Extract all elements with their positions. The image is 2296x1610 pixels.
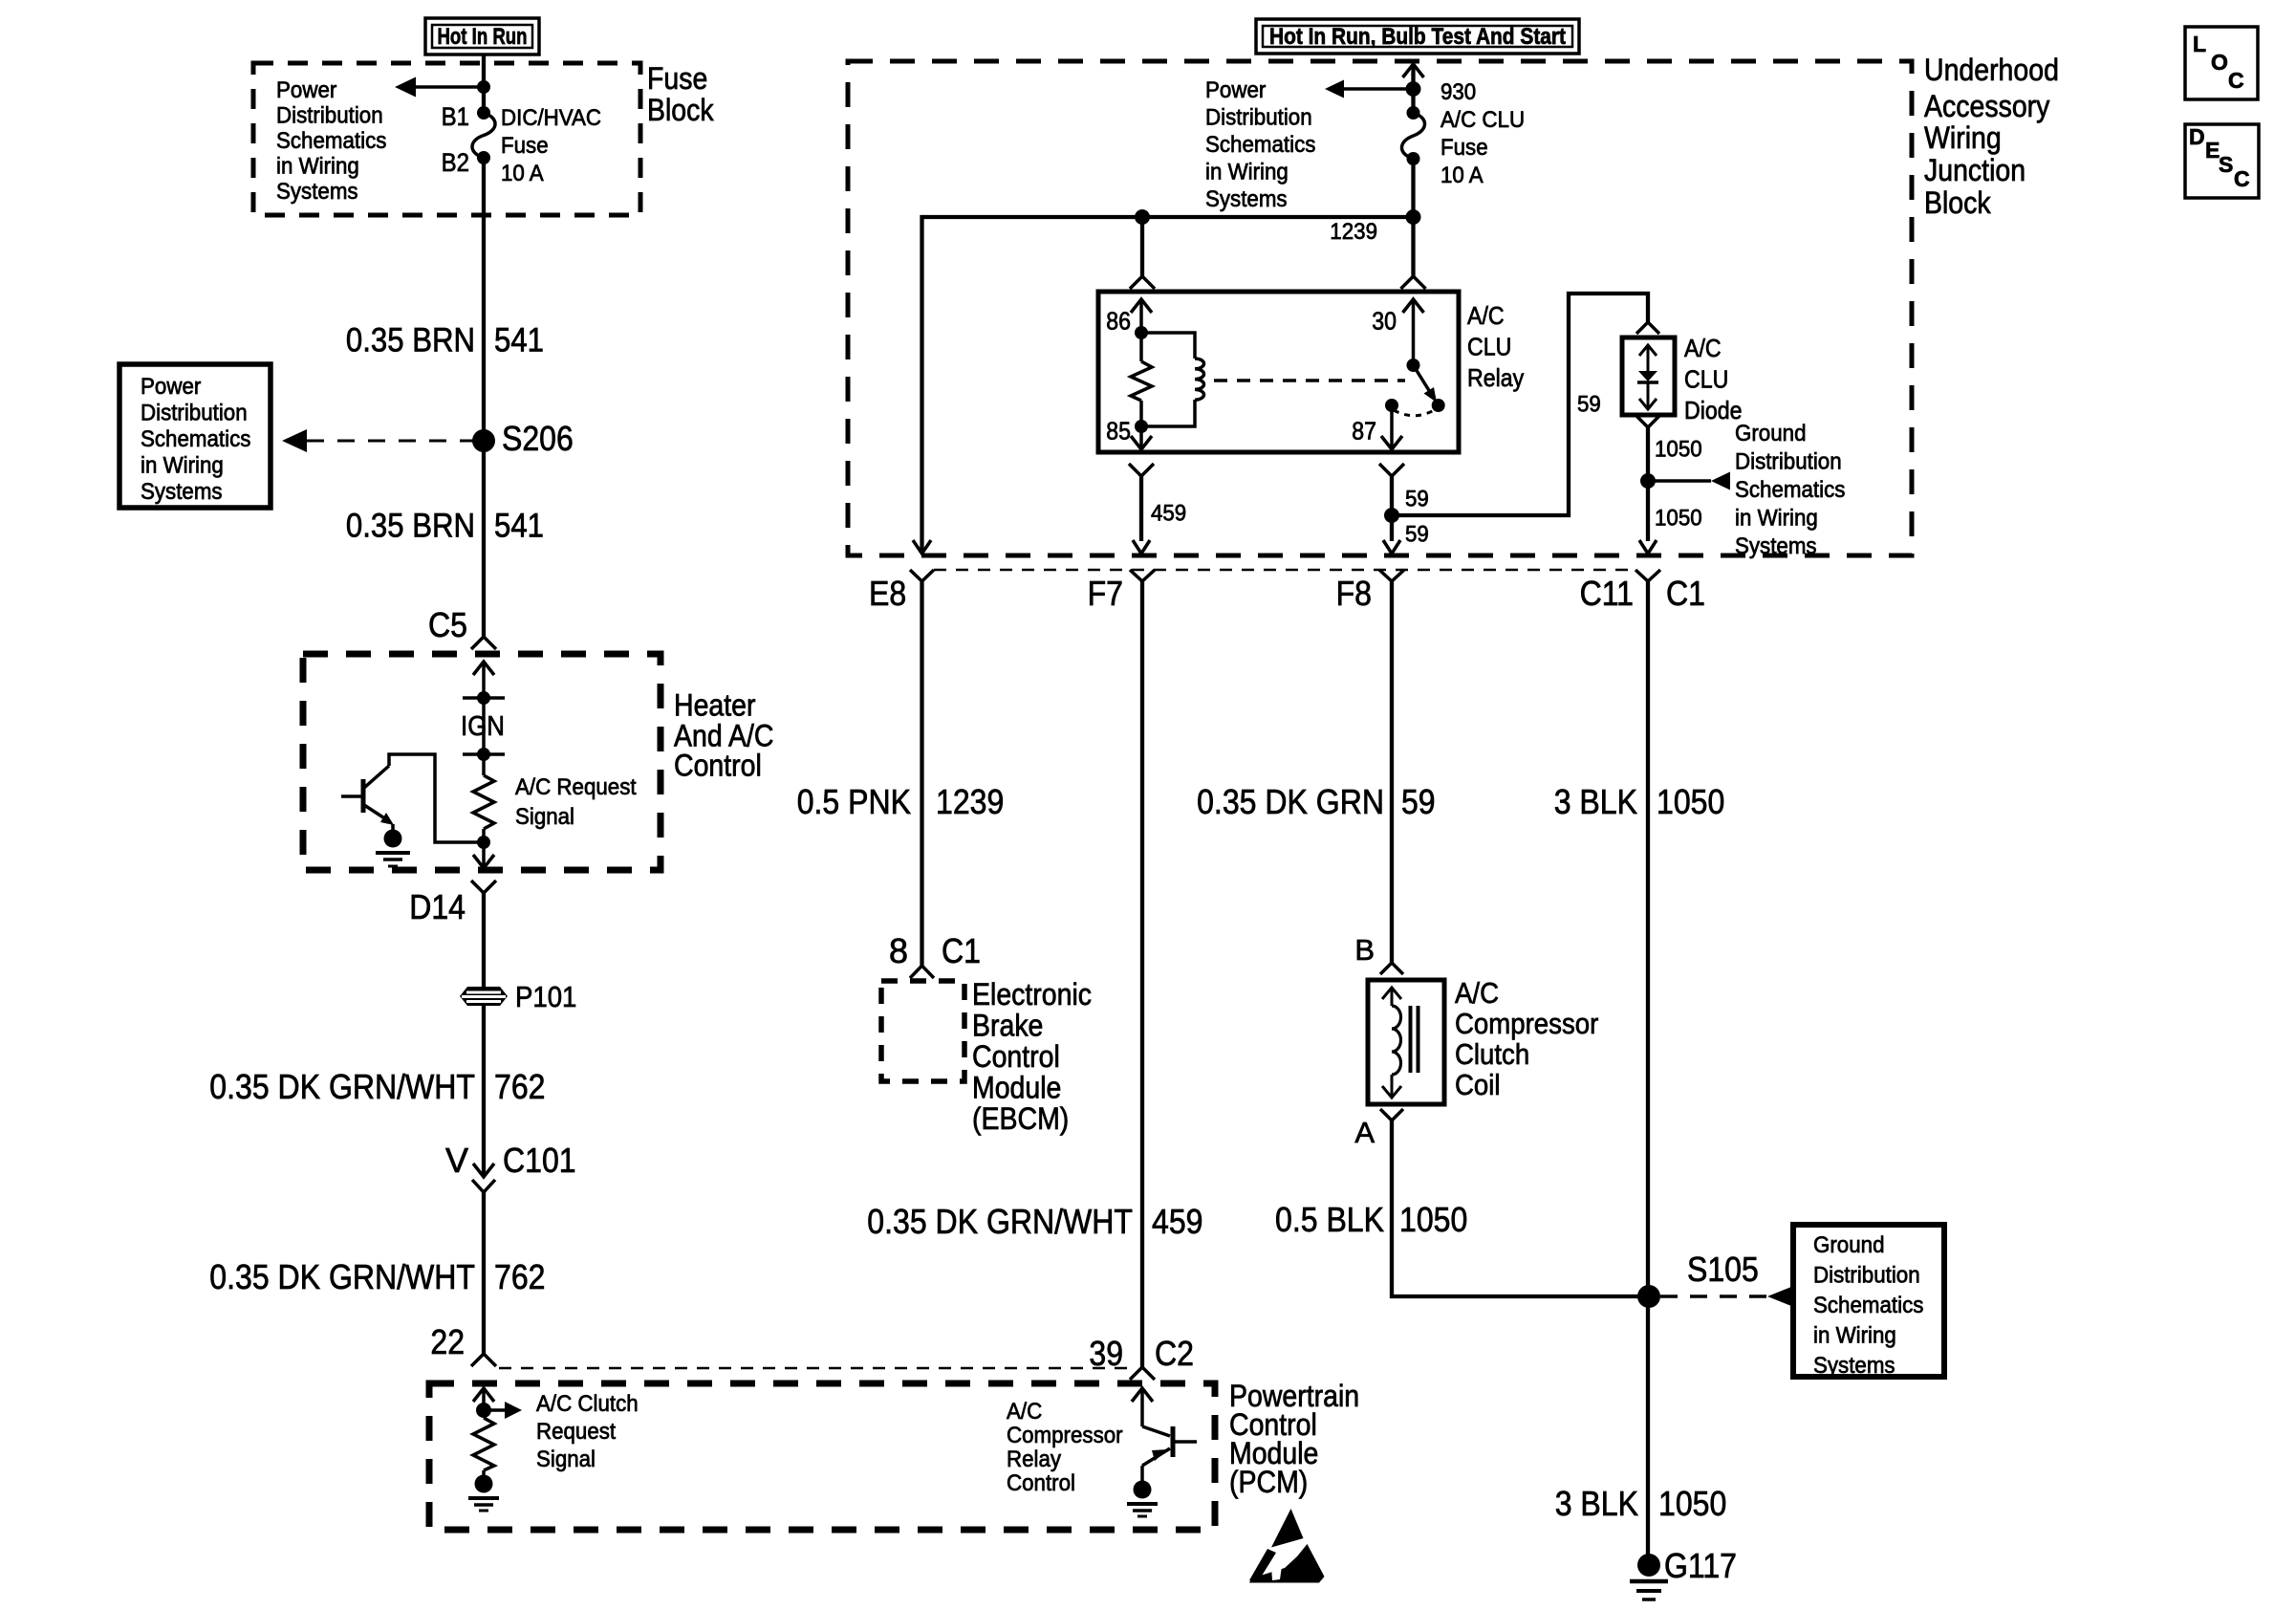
connector D14 chevron (471, 881, 496, 893)
relay switch dashed arc (1394, 409, 1436, 416)
fuse block dashed box (253, 63, 640, 215)
PCM fine dashed connector line (499, 1367, 1128, 1370)
connector C5 chevron (471, 637, 496, 649)
connector C1 chevron (1635, 570, 1660, 581)
svg-text:541: 541 (494, 322, 544, 359)
svg-text:in Wiring: in Wiring (1205, 160, 1289, 185)
wire B2 down to C5 (482, 158, 486, 637)
wire F7 down to PCM (1140, 581, 1144, 1367)
splice S206 (472, 429, 495, 452)
coil entry arrow (1382, 988, 1401, 999)
diode A/C CLU Diode box (1622, 337, 1675, 415)
svg-text:1050: 1050 (1655, 436, 1702, 462)
EBCM dashed box (881, 981, 964, 1081)
connector E8 chevron (910, 570, 934, 581)
svg-text:Block: Block (647, 93, 714, 127)
svg-text:Relay: Relay (1007, 1447, 1061, 1472)
svg-text:Heater: Heater (674, 688, 756, 723)
svg-text:Schematics: Schematics (141, 426, 250, 452)
coil exit arrow (1382, 1086, 1401, 1098)
connector chevron above diode (1636, 322, 1659, 334)
pin 39 C2 labels (1089, 1334, 1194, 1373)
coil inductor winding (1392, 1006, 1401, 1075)
svg-text:Schematics: Schematics (1735, 477, 1845, 503)
connector chevron at coil top (1380, 963, 1403, 974)
connector C101 arrow and chevron (473, 1164, 494, 1177)
svg-text:A/C: A/C (1455, 976, 1499, 1010)
svg-text:S206: S206 (502, 419, 574, 458)
svg-text:Brake: Brake (972, 1009, 1043, 1043)
svg-text:1050: 1050 (1658, 1484, 1726, 1523)
wire entry arrow pin 22 (473, 1388, 494, 1402)
svg-text:Systems: Systems (1813, 1353, 1895, 1379)
pin 22 chevron (471, 1354, 496, 1366)
relay actuation dashed line (1214, 379, 1405, 382)
node relay coil top dot (1135, 326, 1148, 339)
svg-text:Fuse: Fuse (1440, 135, 1488, 161)
wire exit arrow E8 (913, 540, 931, 554)
svg-text:C1: C1 (1666, 574, 1705, 613)
svg-text:87: 87 (1352, 417, 1376, 446)
wire E8 down to EBCM (920, 581, 923, 966)
wire F7 feed down to relay (1140, 217, 1144, 276)
wire arrow to ground distribution (1648, 479, 1711, 483)
relay pin 86 arrow (1131, 299, 1152, 313)
connector chevron below pin 85 (1129, 464, 1154, 476)
svg-text:V: V (445, 1141, 468, 1180)
svg-text:Compressor: Compressor (1455, 1007, 1598, 1040)
svg-text:in Wiring: in Wiring (276, 154, 359, 180)
svg-text:Fuse: Fuse (501, 133, 549, 159)
wire 59 branch to diode (1392, 294, 1648, 515)
svg-text:Distribution: Distribution (1735, 449, 1842, 475)
transistor Q (A/C request driver) (341, 754, 484, 842)
relay switch common dot (1407, 359, 1420, 372)
wire exit arrow F8 (1383, 540, 1400, 554)
connector chevron below pin 87 (1379, 464, 1404, 476)
node bottom junction dot (477, 836, 490, 849)
svg-text:S: S (2219, 152, 2233, 177)
wire exit arrow C1 (1639, 540, 1657, 554)
svg-text:Accessory: Accessory (1924, 89, 2049, 123)
svg-text:Ground: Ground (1735, 421, 1807, 446)
pin 8 C1 labels (889, 931, 981, 970)
wire pin 87 to F8 exit with branch (1390, 476, 1394, 541)
svg-text:A/C: A/C (1007, 1399, 1042, 1425)
PCM dashed box (429, 1383, 1215, 1530)
Underhood Accessory Wiring Junction Block dashed box (848, 61, 1912, 555)
svg-text:L: L (2193, 32, 2206, 56)
grommet P101 (460, 987, 508, 1006)
node junction dot fuse output (1406, 209, 1421, 225)
svg-text:O: O (2211, 50, 2228, 75)
wire to ground (482, 1470, 486, 1477)
wire arrow to power distribution (414, 85, 484, 89)
svg-text:Schematics: Schematics (276, 128, 386, 154)
svg-text:Electronic: Electronic (972, 977, 1092, 1012)
node junction dot at fuse feed (477, 80, 490, 94)
node Power Distribution reference text (junction block) (1205, 77, 1315, 212)
connector chevron at coil bottom (1380, 1109, 1403, 1120)
wire label 0.35 DK GRN 59 (1197, 782, 1436, 821)
node Underhood Accessory Wiring Junction Block label (1924, 53, 2059, 220)
wire label 0.35 DK GRN/WHT 459 (867, 1202, 1202, 1241)
svg-text:0.35 DK GRN: 0.35 DK GRN (1197, 782, 1384, 821)
svg-text:Distribution: Distribution (141, 401, 248, 426)
svg-text:762: 762 (494, 1257, 546, 1296)
relay pin 87 dot (1385, 399, 1398, 412)
svg-text:59: 59 (1401, 782, 1436, 821)
diode internals (1639, 345, 1657, 356)
wire F8 down to coil (1390, 581, 1394, 963)
coil A/C Compressor Clutch Coil box (1368, 980, 1444, 1104)
svg-text:459: 459 (1152, 1202, 1203, 1241)
relay coil inductor (1141, 333, 1195, 359)
svg-text:A: A (1354, 1116, 1375, 1149)
relay switch arm (1414, 365, 1431, 392)
node junction dot at 930 feed (1406, 81, 1421, 97)
svg-text:Power: Power (141, 374, 201, 400)
svg-text:Clutch: Clutch (1455, 1037, 1529, 1071)
svg-text:Power: Power (276, 77, 336, 103)
wire label 0.35 BRN 541 (lower) (346, 508, 544, 545)
wire label 3 BLK 1050 (upper) (1554, 782, 1725, 821)
A/C Compressor Relay Control label (1007, 1399, 1123, 1496)
svg-text:8: 8 (889, 931, 908, 970)
node Hot In Run Bulb Test And Start header box (1256, 19, 1579, 54)
resistor A/C clutch request (473, 1418, 494, 1470)
svg-text:Distribution: Distribution (276, 103, 383, 129)
connector F8 chevron (1379, 570, 1404, 581)
wire D14 to P101 (482, 893, 486, 987)
svg-text:85: 85 (1106, 417, 1131, 446)
svg-text:3 BLK: 3 BLK (1554, 782, 1637, 821)
node junction dot F7 feed (1135, 209, 1150, 225)
wire IGN to resistor junction (482, 698, 486, 775)
connector row fine dashed line (934, 569, 1635, 572)
svg-text:Schematics: Schematics (1205, 132, 1315, 158)
svg-text:Compressor: Compressor (1007, 1423, 1123, 1448)
svg-text:Distribution: Distribution (1813, 1263, 1920, 1289)
svg-text:Systems: Systems (141, 479, 223, 505)
wire 1239 horizontal (922, 217, 1414, 554)
svg-text:C1: C1 (942, 931, 981, 970)
svg-text:G117: G117 (1664, 1546, 1737, 1585)
node resistor top junction (463, 752, 505, 756)
wire label 0.35 DK GRN/WHT 762 (upper) (209, 1067, 545, 1106)
ground (PCM relay control) (1134, 1481, 1152, 1499)
wire exit arrow F7 (1133, 540, 1150, 554)
node Power Distribution reference box (S206) (119, 364, 271, 508)
svg-text:541: 541 (494, 508, 544, 545)
pin C2 chevron (1130, 1367, 1155, 1380)
svg-text:Module: Module (972, 1071, 1061, 1105)
svg-text:Systems: Systems (276, 179, 358, 205)
ESD sensitivity symbol (1249, 1509, 1325, 1583)
wire entry arrow pin C2 (1132, 1388, 1153, 1402)
svg-text:A/C Clutch: A/C Clutch (536, 1391, 639, 1417)
svg-text:Hot In Run: Hot In Run (438, 24, 528, 50)
svg-text:S105: S105 (1687, 1250, 1759, 1289)
svg-text:86: 86 (1106, 307, 1131, 336)
svg-text:in Wiring: in Wiring (1735, 506, 1818, 532)
fuse value label DIC/HVAC Fuse 10 A (501, 105, 601, 186)
svg-text:22: 22 (430, 1322, 465, 1361)
svg-text:Relay: Relay (1467, 363, 1524, 392)
svg-text:in Wiring: in Wiring (1813, 1323, 1896, 1349)
svg-text:59: 59 (1577, 391, 1601, 417)
svg-text:(EBCM): (EBCM) (972, 1101, 1069, 1136)
svg-text:0.5 BLK: 0.5 BLK (1275, 1200, 1384, 1239)
node junction dot ground branch (1640, 473, 1656, 489)
svg-text:P101: P101 (515, 980, 576, 1013)
wire exit arrow to D14 (482, 842, 486, 868)
relay switch contact dot (1432, 399, 1445, 412)
svg-text:Schematics: Schematics (1813, 1293, 1923, 1318)
svg-text:A/C Request: A/C Request (515, 774, 637, 800)
svg-text:Fuse: Fuse (647, 61, 707, 96)
svg-text:E8: E8 (869, 574, 906, 613)
svg-text:1050: 1050 (1657, 782, 1724, 821)
svg-text:A/C: A/C (1684, 334, 1722, 362)
svg-text:Control: Control (674, 749, 762, 783)
relay A/C CLU Relay box (1098, 292, 1459, 452)
svg-text:Signal: Signal (515, 804, 574, 830)
wire C1 down to G117 (1646, 581, 1650, 1565)
svg-text:Hot In Run, Bulb Test And Star: Hot In Run, Bulb Test And Start (1269, 24, 1566, 50)
relay pin 87 arrow (1390, 405, 1394, 449)
svg-text:Junction: Junction (1924, 153, 2025, 187)
svg-text:CLU: CLU (1684, 365, 1728, 394)
svg-text:0.5 PNK: 0.5 PNK (797, 782, 911, 821)
connector chevron at EBCM (910, 966, 934, 978)
connector chevron above relay pin 30 (1401, 276, 1426, 289)
node LOC reference box (2185, 27, 2258, 99)
wire arrow to power distribution (junction block) (1342, 87, 1414, 91)
wire pin 85 to F7 exit (1139, 476, 1143, 541)
wire C101 to PCM pin 22 (482, 1192, 486, 1354)
relay pin 85 arrow (1139, 426, 1143, 449)
svg-text:A/C CLU: A/C CLU (1440, 107, 1525, 133)
wire from Hot In Run to fuse B1 (482, 54, 486, 113)
wire label 0.5 BLK 1050 (1275, 1200, 1467, 1239)
svg-text:1239: 1239 (936, 782, 1004, 821)
svg-text:F8: F8 (1336, 574, 1372, 613)
node Electronic Brake Control Module label (972, 977, 1092, 1136)
transistor Q (A/C compressor relay control) (1142, 1426, 1197, 1481)
svg-text:(PCM): (PCM) (1229, 1465, 1308, 1499)
node Fuse Block label (647, 61, 714, 127)
node IGN junction (463, 696, 505, 700)
svg-text:30: 30 (1372, 307, 1397, 336)
coil core bars (1409, 1006, 1413, 1073)
connector labels E8 F7 F8 C11 C1 (869, 574, 1705, 613)
svg-text:C11: C11 (1580, 574, 1634, 613)
svg-text:1050: 1050 (1399, 1200, 1467, 1239)
fuse labels 930 A/C CLU Fuse 10 A (1440, 79, 1525, 188)
wire coil A to S105 (1392, 1120, 1649, 1296)
wire label 3 BLK 1050 (lower) (1555, 1484, 1727, 1523)
splice S105 (1637, 1285, 1660, 1308)
wire entry arrow from hot feed (1403, 64, 1424, 77)
svg-text:59: 59 (1405, 486, 1429, 511)
svg-text:1239: 1239 (1330, 219, 1377, 245)
ground (heater control internal) (384, 830, 402, 848)
node Powertrain Control Module label (1229, 1379, 1359, 1499)
svg-text:C: C (2228, 68, 2244, 93)
svg-text:Systems: Systems (1735, 533, 1817, 559)
svg-text:0.35 BRN: 0.35 BRN (346, 322, 475, 359)
wire label 0.35 DK GRN/WHT 762 (lower) (209, 1257, 545, 1296)
connector chevron below diode (1636, 416, 1659, 427)
svg-text:0.35 DK GRN/WHT: 0.35 DK GRN/WHT (209, 1257, 475, 1296)
svg-text:D: D (2189, 124, 2205, 149)
svg-text:762: 762 (494, 1067, 546, 1106)
node A/C Compressor Clutch Coil label (1455, 976, 1598, 1101)
svg-text:C: C (2234, 166, 2250, 191)
svg-text:B1: B1 (442, 102, 469, 131)
node Ground Distribution reference box (S105) (1793, 1225, 1944, 1377)
svg-text:Block: Block (1924, 185, 1991, 220)
svg-text:Diode: Diode (1684, 396, 1743, 424)
svg-text:10 A: 10 A (501, 161, 544, 186)
wire fuse to 1239 junction (1411, 159, 1415, 276)
svg-text:C101: C101 (503, 1141, 576, 1180)
A/C Request Signal label (515, 774, 637, 830)
dashed arrow wire S105 to ground reference (1660, 1295, 1767, 1298)
fuse A/C CLU 10A symbol (1407, 106, 1420, 120)
node A/C CLU Relay label (1467, 301, 1524, 392)
svg-text:459: 459 (1151, 500, 1186, 526)
fuse F1 DIC/HVAC 10A symbol (477, 106, 490, 120)
relay pin 30 arrow (1403, 299, 1424, 313)
A/C Clutch Request Signal label (536, 1391, 639, 1472)
svg-text:Distribution: Distribution (1205, 105, 1312, 131)
svg-text:Control: Control (1007, 1470, 1075, 1496)
svg-text:39: 39 (1089, 1334, 1123, 1373)
node Heater And A/C Control label (674, 688, 774, 783)
resistor A/C request signal (473, 775, 494, 829)
ground G117 (1637, 1554, 1660, 1577)
node DESC reference box (2185, 124, 2259, 198)
svg-text:B2: B2 (442, 148, 469, 177)
svg-text:1050: 1050 (1655, 505, 1702, 531)
svg-text:C5: C5 (428, 605, 467, 644)
Heater And A/C Control dashed box (303, 654, 661, 870)
svg-text:Signal: Signal (536, 1447, 596, 1472)
connector C101 labels V C101 (445, 1141, 576, 1180)
svg-text:Request: Request (536, 1419, 616, 1445)
svg-text:Ground: Ground (1813, 1232, 1885, 1258)
wire diode to C1 exit (1646, 427, 1650, 541)
node relay coil bottom dot (1135, 420, 1148, 433)
node Hot In Run header box (425, 18, 539, 54)
connector F7 chevron (1130, 570, 1155, 581)
ground (PCM request signal) (475, 1475, 493, 1493)
svg-text:0.35 DK GRN/WHT: 0.35 DK GRN/WHT (867, 1202, 1133, 1241)
node junction dot 59 branch (1384, 508, 1399, 523)
wire resistor to bottom junction (482, 829, 486, 842)
svg-text:B: B (1354, 933, 1375, 967)
wire label 0.5 PNK 1239 (797, 782, 1005, 821)
node A/C CLU Diode label (1684, 334, 1743, 424)
wire entry arrow at C5 (473, 662, 494, 675)
svg-text:Power: Power (1205, 77, 1266, 103)
svg-text:Coil: Coil (1455, 1068, 1501, 1101)
svg-text:0.35 DK GRN/WHT: 0.35 DK GRN/WHT (209, 1067, 475, 1106)
svg-text:Wiring: Wiring (1924, 120, 2002, 155)
node Power Distribution reference text (fuse block) (276, 77, 386, 205)
svg-text:in Wiring: in Wiring (141, 453, 224, 479)
connector chevron above relay pin 86 (1130, 276, 1155, 289)
svg-text:C2: C2 (1155, 1334, 1194, 1373)
relay coil resistor (1139, 333, 1143, 361)
svg-text:Systems: Systems (1205, 186, 1288, 212)
svg-text:DIC/HVAC: DIC/HVAC (501, 105, 601, 131)
svg-text:3 BLK: 3 BLK (1555, 1484, 1638, 1523)
dashed arrow wire from S206 to reference box (307, 440, 473, 443)
svg-text:0.35 BRN: 0.35 BRN (346, 508, 475, 545)
svg-text:10 A: 10 A (1440, 163, 1484, 188)
wire P101 to C101 (482, 1006, 486, 1177)
node junction with right arrow (A/C clutch request) (476, 1403, 491, 1418)
svg-text:930: 930 (1440, 79, 1476, 105)
svg-text:F7: F7 (1088, 574, 1123, 613)
svg-text:CLU: CLU (1467, 333, 1511, 361)
svg-text:D14: D14 (409, 887, 466, 926)
svg-text:59: 59 (1405, 521, 1429, 547)
svg-text:Control: Control (972, 1039, 1060, 1074)
wire label 0.35 BRN 541 (upper) (346, 322, 544, 359)
svg-text:A/C: A/C (1467, 301, 1505, 330)
node Ground Distribution reference text (junction block) (1735, 421, 1845, 559)
svg-text:Underhood: Underhood (1924, 53, 2059, 87)
